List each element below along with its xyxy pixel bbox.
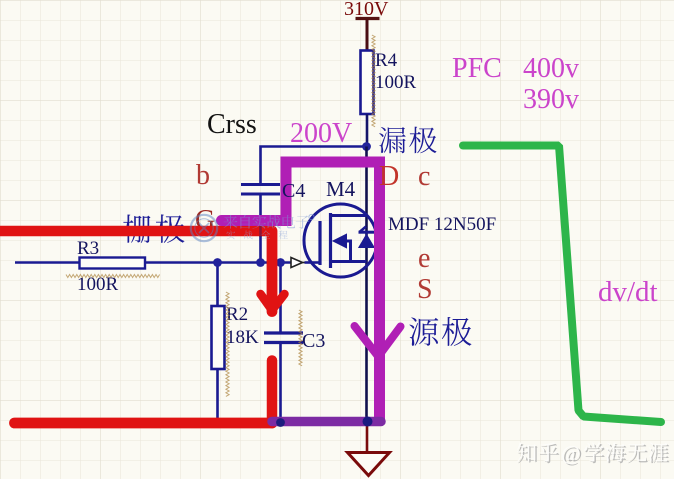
green annotation wire dv/dt — [463, 146, 661, 423]
violet annotation wire: bottom horizontal — [272, 417, 381, 427]
wire C4 to gate node — [259, 195, 262, 264]
svg-text:400v: 400v — [523, 53, 579, 84]
purple annotation arrowhead — [355, 326, 401, 356]
watermark zigzag near R2 — [226, 292, 229, 396]
node drain junction — [362, 142, 371, 151]
resistor R3 — [80, 258, 146, 269]
svg-text:200V: 200V — [290, 118, 352, 149]
wire R2 to bottom rail — [216, 369, 219, 424]
svg-text:c: c — [418, 161, 430, 192]
label gate (CJK) — [123, 214, 184, 243]
watermark zigzag near C3 — [299, 310, 302, 366]
watermark 知乎 @学海无涯 (embossed) — [517, 441, 670, 467]
wire C3 to bottom rail — [279, 343, 282, 422]
svg-text:b: b — [196, 160, 210, 191]
mosfet M4 — [304, 204, 377, 277]
capacitor C3 — [264, 333, 303, 343]
node R2 top junction — [213, 258, 222, 267]
svg-text:D: D — [379, 161, 399, 192]
red annotation wire: vertical down — [267, 231, 278, 312]
ground — [348, 453, 390, 476]
faint wire seen through red band — [259, 226, 262, 237]
node C3 top junction — [276, 258, 285, 267]
svg-text:R3: R3 — [77, 238, 99, 259]
svg-text:MDF 12N50F: MDF 12N50F — [388, 214, 496, 235]
svg-text:100R: 100R — [77, 274, 119, 295]
node C3/bottom-rail junction — [276, 418, 285, 427]
wire drain vertical through mosfet — [365, 147, 368, 421]
svg-text:Crss: Crss — [207, 109, 257, 140]
wire C3 branch — [279, 263, 282, 333]
svg-text:dv/dt: dv/dt — [598, 276, 658, 308]
svg-text:18K: 18K — [226, 327, 259, 348]
svg-text:R4: R4 — [375, 50, 398, 71]
gate input open arrow — [291, 258, 303, 268]
label source (CJK) — [409, 317, 471, 346]
wire 310V to R4 — [366, 20, 369, 52]
red annotation arrowhead — [261, 294, 285, 310]
capacitor C4 — [241, 185, 280, 195]
svg-text:390v: 390v — [523, 84, 579, 115]
watermark zigzag near R4 — [372, 35, 375, 127]
wire gate (left lead to R3) — [15, 261, 80, 263]
purple annotation wire: up/over/down — [286, 162, 380, 421]
svg-text:R2: R2 — [226, 304, 248, 325]
red annotation wire: bottom horizontal — [15, 418, 273, 429]
svg-text:@: @ — [561, 441, 580, 465]
power rail 310V bar — [356, 17, 380, 20]
node source/bottom-rail junction — [363, 417, 373, 427]
resistor R4 — [361, 51, 374, 115]
svg-text:100R: 100R — [375, 72, 417, 93]
label drain (CJK) — [379, 127, 436, 154]
red annotation wire: lower vertical — [267, 361, 278, 424]
node C4/gate junction — [256, 258, 265, 267]
svg-text:M4: M4 — [326, 177, 356, 201]
watermark text (CJK, faint) — [224, 215, 310, 229]
svg-text:310V: 310V — [344, 0, 389, 20]
wire drain node to C4 branch — [261, 147, 367, 185]
watermark stamp circle — [191, 215, 217, 241]
svg-text:e: e — [418, 243, 430, 274]
purple annotation wire: G segment — [222, 215, 287, 226]
watermark zigzag under 100R — [66, 275, 160, 278]
wire R2 branch — [216, 263, 219, 307]
wire R4 to drain node — [366, 114, 369, 147]
resistor R2 — [212, 306, 225, 369]
svg-text:PFC: PFC — [452, 53, 502, 84]
wire source below rail to ground — [366, 424, 369, 452]
svg-text:C3: C3 — [302, 330, 325, 352]
red annotation wire: gate path horizontal — [0, 226, 272, 237]
svg-text:S: S — [417, 274, 433, 305]
svg-text:C4: C4 — [282, 180, 305, 202]
wire R3 to gate of M4 — [145, 261, 291, 263]
